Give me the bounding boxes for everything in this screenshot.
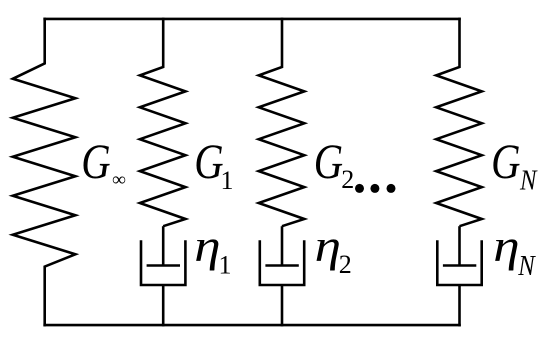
svg-text:η: η (315, 221, 341, 271)
svg-text:G: G (314, 133, 343, 189)
wire eta1 to bottom bar (162, 285, 165, 326)
svg-text:η: η (493, 221, 519, 271)
label eta_2 (315, 221, 341, 271)
spring G2 (259, 18, 305, 227)
svg-text:N: N (517, 249, 536, 281)
svg-text:2: 2 (339, 250, 352, 279)
dashpot etaN piston rod (458, 226, 461, 265)
label G_2 (314, 133, 343, 189)
dashpot etaN piston plate (443, 264, 476, 267)
svg-text:∞: ∞ (112, 170, 126, 191)
label G_1 (194, 133, 223, 189)
dashpot etaN cup (437, 240, 481, 285)
dashpot eta2 piston plate (265, 264, 298, 267)
svg-text:N: N (519, 164, 538, 196)
dashpot eta1 cup (141, 240, 185, 285)
wire etaN to bottom bar (458, 285, 461, 326)
dots (355, 184, 364, 193)
svg-text:G: G (491, 133, 520, 189)
top bar (43, 18, 460, 21)
svg-text:1: 1 (221, 166, 234, 195)
dashpot eta1 piston rod (162, 226, 165, 265)
bottom bar (43, 324, 460, 327)
label G_N (491, 133, 520, 189)
dashpot eta2 piston rod (281, 226, 284, 265)
svg-text:G: G (81, 133, 110, 189)
label G_infinity (81, 133, 110, 189)
spring GN (436, 18, 482, 227)
dashpot eta2 cup (260, 240, 304, 285)
svg-text:G: G (194, 133, 223, 189)
svg-text:η: η (194, 221, 220, 271)
wire eta2 to bottom bar (281, 285, 284, 326)
svg-text:2: 2 (341, 165, 354, 194)
label eta_N (493, 221, 519, 271)
label eta_1 (194, 221, 220, 271)
svg-text:1: 1 (219, 251, 232, 280)
spring G_inf (13, 18, 76, 327)
dashpot eta1 piston plate (147, 264, 180, 267)
spring G1 (140, 18, 186, 227)
